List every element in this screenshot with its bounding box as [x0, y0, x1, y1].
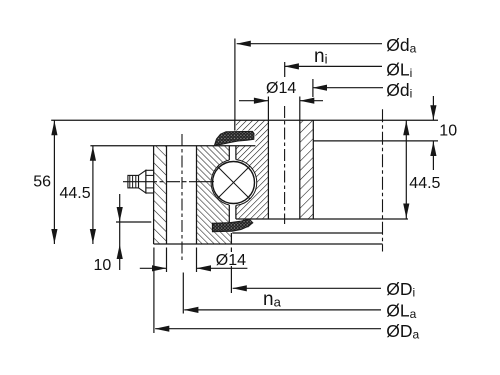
inner ring section (hatched) [215, 120, 313, 219]
inner ring top-left wall [234, 120, 236, 130]
channel left wall upper [228, 146, 230, 160]
dim line L_i [285, 65, 382, 67]
outer hole axis [181, 134, 183, 263]
dim O14 top [239, 100, 268, 102]
inner ring bore (d_i) [312, 120, 314, 219]
inner ring strip rehatch [300, 120, 314, 219]
dim 56 [53, 120, 55, 244]
outer bolt hole left edge [166, 146, 168, 244]
channel right wall lower [235, 205, 237, 219]
svg-text:ØDi: ØDi [386, 279, 415, 300]
inner ring bottom face [236, 218, 408, 220]
dim L_a [184, 309, 381, 311]
dim 44.5 right [405, 120, 407, 218]
top seal [215, 131, 255, 145]
ball [213, 162, 255, 204]
outer ring bottom face [154, 243, 383, 245]
outer ring top face + 44.5 ext [90, 145, 255, 147]
outer ring left face (D_a) [153, 146, 155, 244]
dim D_a [155, 328, 381, 330]
dim line d_i [313, 87, 383, 89]
svg-text:Ødi: Ødi [386, 80, 412, 101]
dim 10 right [432, 96, 434, 120]
svg-text:Ø14: Ø14 [216, 252, 246, 269]
bearing axis [382, 109, 384, 251]
svg-text:44.5: 44.5 [409, 175, 440, 192]
dim 10 bottom-left [119, 194, 121, 270]
channel right wall upper [235, 146, 237, 160]
svg-text:56: 56 [33, 174, 51, 191]
bottom step line [232, 232, 382, 234]
outer ring bore (D_i) [230, 233, 232, 244]
dim O14 bottom [140, 267, 167, 269]
grease nipple [128, 170, 154, 193]
outer ring left strip rehatch [154, 146, 167, 244]
top seal groove [234, 131, 255, 146]
inner bolt hole right edge [299, 120, 301, 219]
seal retainer piece [243, 219, 251, 227]
svg-text:10: 10 [439, 122, 457, 139]
outer bolt hole right edge [196, 146, 198, 244]
svg-text:10: 10 [94, 257, 112, 274]
svg-text:Ø14: Ø14 [266, 80, 296, 97]
top face line + 56/10 ext [51, 119, 438, 121]
dim D_i [233, 287, 381, 289]
outer ring section (hatched) [154, 146, 232, 244]
raceway [211, 160, 257, 206]
dim 44.5 left [92, 146, 94, 244]
channel left wall lower [228, 205, 230, 223]
right step line (10 ext) [313, 140, 438, 142]
inner ring bolt hole [268, 120, 299, 220]
outer ring bolt hole [167, 145, 197, 245]
inner bolt hole left edge [267, 120, 269, 219]
inner hole axis [284, 106, 286, 224]
seal groove left wall [212, 223, 214, 232]
svg-text:44.5: 44.5 [60, 185, 91, 202]
lube centre line [123, 181, 214, 183]
bottom seal [213, 219, 253, 232]
dim line d_a [237, 43, 382, 45]
svg-text:ØLi: ØLi [386, 59, 412, 80]
